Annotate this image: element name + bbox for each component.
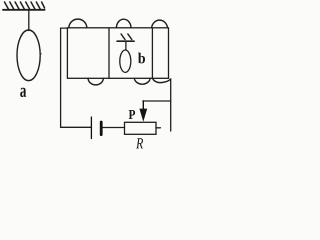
ceiling hatch marks [5,2,45,9]
inner support bar for coil b [117,40,134,42]
slider arrow P stem [142,101,144,110]
slider arrowhead [139,109,147,122]
label a [20,88,26,97]
battery long plate (+) [90,117,92,139]
coil front pass wire 2 [151,28,153,78]
rheostat right terminal stub [156,127,160,129]
thread suspending coil b [125,42,127,50]
coil end arc (bottom right, to circuit wire) [152,78,170,82]
rheostat R body [125,122,157,134]
ceiling support line [3,9,45,11]
label P [129,110,135,119]
coil b (small hanging ring) [120,50,131,72]
battery short thick plate (-) [100,122,103,135]
scan fleck on coil a rim [40,53,42,55]
coil turn arc 1 (top) [69,19,87,28]
string suspending coil a [28,10,30,30]
coil front pass wire 1 [108,28,110,78]
wire: battery to rheostat R [103,127,125,129]
coil turn arc A (bottom) [88,78,103,85]
slider wire horizontal [143,100,171,102]
coil turn arc 3 (top) [152,20,168,28]
label b [138,53,145,64]
wire: left vertical [60,28,62,127]
inner support hatch marks [121,34,132,40]
solenoid core rectangle [67,28,168,79]
coil turn arc 2 (top) [116,19,131,28]
label R [136,138,143,148]
coil a (hanging ring) [17,30,40,81]
coil turn arc B (bottom) [134,78,150,84]
wire: bottom left horizontal to battery [61,126,91,128]
wire: coil start to left vertical [61,27,68,29]
wire: right vertical (coil to slider) [170,79,172,131]
